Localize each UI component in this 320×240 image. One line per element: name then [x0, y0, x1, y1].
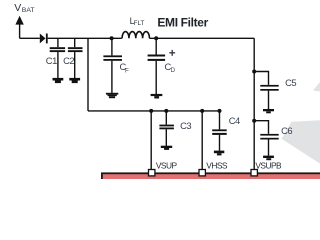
svg-text:VSUPB: VSUPB [255, 160, 282, 170]
junction node VHSS [200, 109, 204, 113]
wire C2 top lead [74, 38, 76, 47]
wire C6 bottom lead [268, 140, 270, 156]
pin VSUP square [149, 170, 155, 176]
wire C5 bottom lead [268, 91, 270, 110]
label plus CD [169, 50, 175, 56]
wire C3 top lead [165, 111, 167, 125]
watermark large gray wedge [282, 120, 320, 163]
wire CF top lead [111, 38, 113, 55]
wire right vertical VSUPB [253, 38, 255, 169]
wire C4 top lead [219, 111, 221, 129]
capacitor CD plates [148, 55, 166, 61]
junction node CF top [110, 36, 114, 40]
label VBAT [14, 2, 34, 14]
inductor LFLT [122, 32, 149, 39]
pin VSUPB square [251, 170, 257, 176]
svg-text:C2: C2 [63, 55, 74, 66]
wire CD bottom lead [155, 61, 157, 94]
capacitor C2 plates [68, 47, 83, 52]
wire VSUP drop [150, 111, 152, 170]
svg-text:C5: C5 [285, 77, 296, 88]
wire top rail left of diode [20, 37, 40, 39]
ground arrow below C3 [161, 146, 172, 150]
junction node CD top [154, 36, 158, 40]
junction node C3 [164, 109, 168, 113]
wire top rail inductor to corner [149, 37, 254, 39]
svg-text:C6: C6 [281, 125, 292, 136]
ground arrow below C6 [263, 156, 274, 161]
junction node C6 [252, 119, 256, 123]
capacitor C1 plates [50, 47, 65, 52]
wire VHSS drop [201, 111, 203, 170]
svg-text:C4: C4 [229, 115, 240, 126]
ground arrow below C1 [53, 78, 64, 83]
wire top rail diode to inductor [48, 37, 122, 39]
label CF [120, 61, 130, 75]
wire C3 bottom lead [165, 129, 167, 146]
svg-text:D: D [171, 67, 176, 74]
IC red bar [101, 172, 320, 179]
svg-text:VSUP: VSUP [156, 160, 178, 170]
capacitor C6 plates [260, 134, 278, 140]
wire C1 top lead [57, 38, 59, 47]
wire C2 bottom lead [74, 52, 76, 78]
wire C4 bottom lead [219, 135, 221, 151]
watermark small gray triangle [313, 82, 320, 92]
wire C6 stub [254, 121, 268, 134]
wire bottom rail [88, 110, 220, 112]
junction node VSUP [149, 109, 153, 113]
wire VBAT lead [19, 20, 21, 38]
wire CF bottom lead [111, 61, 113, 93]
capacitor C3 plates [159, 125, 174, 130]
junction node C4 [218, 109, 222, 113]
svg-text:FLT: FLT [134, 20, 145, 27]
svg-text:F: F [125, 67, 129, 74]
label CD [165, 61, 176, 74]
ground below CF [106, 93, 118, 98]
wire left branch vertical [87, 38, 89, 111]
capacitor C5 plates [260, 85, 278, 91]
svg-text:C3: C3 [180, 120, 191, 131]
svg-text:VHSS: VHSS [206, 160, 228, 170]
capacitor C4 plates [212, 129, 227, 135]
capacitor CF plates [103, 55, 122, 60]
svg-text:BAT: BAT [22, 7, 35, 14]
svg-text:EMI Filter: EMI Filter [157, 16, 208, 30]
VBAT arrow up [15, 16, 23, 25]
wire C1 bottom lead [57, 52, 59, 78]
svg-text:C1: C1 [46, 55, 57, 66]
diode D1 [40, 34, 48, 44]
svg-text:V: V [14, 2, 21, 14]
label LFLT [130, 16, 145, 27]
pin VHSS square [199, 170, 205, 176]
wire CD top lead [155, 38, 157, 54]
ground arrow below C2 [69, 78, 80, 83]
ground arrow below C5 [263, 109, 274, 113]
junction node C5 [252, 70, 256, 74]
ground arrow below C4 [214, 151, 224, 156]
wire C5 stub [254, 72, 268, 85]
ground below CD [151, 94, 163, 99]
